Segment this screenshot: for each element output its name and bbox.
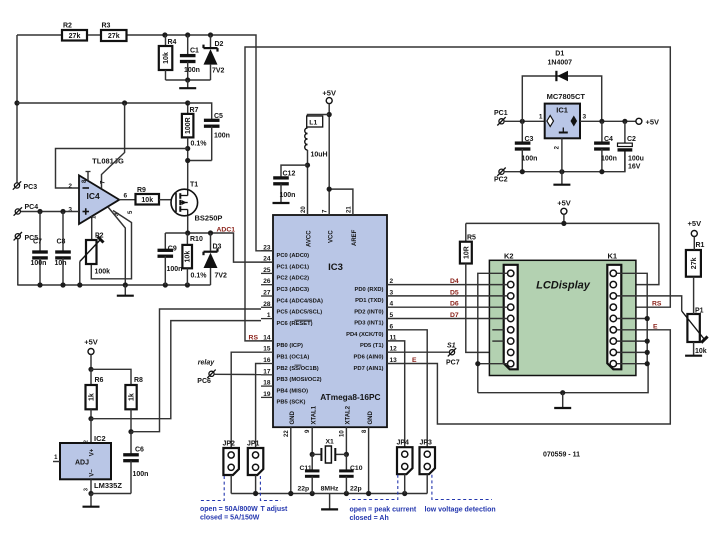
svg-text:C8: C8: [57, 239, 66, 246]
svg-text:AVCC: AVCC: [307, 230, 313, 247]
wire JP1 bottom to gnd rail: [255, 475, 257, 494]
wire D4 pin2 to K2: [387, 284, 508, 286]
wire D5 pin3 to K2: [387, 295, 508, 297]
IC3 pin 1 PC6 (RESET) stub: [261, 318, 273, 320]
junction dot K1 row7: [645, 339, 650, 344]
svg-text:R4: R4: [168, 39, 177, 46]
junction dot JP4 rail: [402, 491, 407, 496]
node PC3: [13, 181, 37, 191]
wire op-amp pin7 supply: [102, 103, 125, 189]
junction dot left rail y103: [14, 100, 19, 105]
svg-text:+5V: +5V: [646, 117, 660, 126]
svg-text:1k: 1k: [129, 393, 136, 401]
capacitor C12: [273, 165, 307, 202]
wire D7 pin5 to K2: [387, 318, 508, 320]
svg-text:JP2: JP2: [223, 441, 236, 448]
wire D6 pin4 to K2: [387, 306, 508, 308]
wire PC6 to IC3 pin17: [214, 373, 261, 375]
IC3 pin 19 PB5 (SCK) stub: [261, 396, 273, 398]
junction dot C3 bottom: [520, 169, 525, 174]
junction dot C1 top: [185, 32, 190, 37]
power +5V node above L1: [322, 89, 336, 115]
wire K1 row3 to P1 wiper: [617, 296, 682, 311]
junction dot L1 bottom AVCC: [305, 163, 310, 168]
svg-text:PB2 (SS/OC1B): PB2 (SS/OC1B): [277, 366, 319, 372]
svg-text:C10: C10: [350, 465, 363, 472]
ground below LCD: [554, 393, 571, 408]
capacitor C11 22p: [298, 454, 320, 493]
svg-text:PC5 (ADC5/SCL): PC5 (ADC5/SCL): [277, 310, 323, 316]
svg-text:100n: 100n: [184, 67, 200, 74]
junction dot op-amp pin4 bottom: [123, 282, 128, 287]
junction dot R8 bottom: [128, 429, 133, 434]
svg-text:GND: GND: [368, 411, 374, 425]
svg-text:22p: 22p: [298, 486, 310, 493]
electrolytic capacitor C2 100u 16V: [618, 121, 644, 171]
svg-text:7V2: 7V2: [215, 273, 228, 280]
svg-text:10uH: 10uH: [311, 152, 328, 159]
junction dot op-amp supply tap: [122, 100, 127, 105]
junction dot C8 top: [60, 209, 65, 214]
node PC6 relay output: [197, 359, 215, 385]
power +5V node above R6: [84, 338, 98, 370]
junction dot R6 bottom: [88, 416, 93, 421]
IC3 pin 8 GND stub: [368, 427, 370, 493]
svg-text:PD1 (TXD): PD1 (TXD): [355, 298, 383, 304]
svg-text:0.1%: 0.1%: [191, 141, 208, 148]
capacitor C7: [31, 212, 48, 286]
microcontroller IC3 ATmega8-16PC body: [273, 215, 387, 427]
svg-text:RS: RS: [652, 301, 662, 308]
wire PC1 to IC1 input: [504, 120, 545, 122]
junction dot C5 join: [185, 158, 190, 163]
connector K1: [607, 265, 621, 370]
junction dot pin22 rail: [288, 491, 293, 496]
wire rail y103 extension to C5: [188, 103, 212, 120]
svg-text:T1: T1: [190, 182, 198, 189]
svg-text:V+: V+: [90, 448, 96, 456]
svg-text:16: 16: [263, 357, 271, 364]
wire K2 row9 to ground link: [478, 363, 508, 365]
node PC4: [14, 204, 39, 216]
svg-text:X1: X1: [326, 439, 335, 446]
svg-text:R5: R5: [467, 235, 476, 242]
wire IC3 pin11 to JP4: [387, 341, 405, 447]
capacitor C1: [180, 35, 200, 80]
junction dot K1 row8: [645, 350, 650, 355]
junction dot C1 bottom: [185, 77, 190, 82]
wire JP2 bottom to gnd rail: [230, 475, 232, 494]
resistor R2: [62, 23, 87, 41]
wire P1 bottom to ground: [693, 342, 695, 355]
svg-text:PD6 (AIN0): PD6 (AIN0): [354, 355, 384, 361]
IC3 pin 7 VCC stub: [328, 115, 330, 216]
wire T1 source to ADC1 rail: [187, 216, 189, 233]
svg-text:100u: 100u: [628, 156, 644, 163]
svg-text:D3: D3: [213, 243, 222, 250]
svg-text:1k: 1k: [89, 393, 96, 401]
svg-text:19: 19: [263, 391, 271, 398]
annotation dashed JP2: [200, 475, 492, 501]
svg-text:+5V: +5V: [557, 199, 571, 208]
svg-text:100n: 100n: [214, 133, 230, 140]
junction dot XTAL2 node: [344, 452, 349, 457]
svg-text:PD5 (T1): PD5 (T1): [360, 343, 384, 349]
svg-text:27k: 27k: [108, 33, 120, 40]
IC3 pin 9 XTAL1 stub: [311, 427, 313, 454]
svg-text:MC7805CT: MC7805CT: [547, 92, 586, 101]
ground below P1: [685, 355, 702, 357]
wire +5V rail to K1 pin2: [617, 223, 659, 284]
power +5V node to LCD rail: [557, 199, 571, 224]
wire between R2 and R3: [87, 34, 101, 36]
svg-text:PC2 (ADC2): PC2 (ADC2): [277, 276, 310, 282]
IC3 pin 22 GND stub: [290, 427, 292, 493]
wire RS net from pin14 up and across: [245, 47, 670, 341]
svg-text:16V: 16V: [628, 164, 641, 171]
capacitor C8: [55, 212, 71, 286]
svg-text:JP1: JP1: [247, 441, 260, 448]
svg-text:27: 27: [263, 290, 271, 297]
jumper JP2: [223, 448, 239, 475]
junction dot C11 rail: [310, 491, 315, 496]
svg-text:10k: 10k: [185, 251, 192, 263]
svg-text:1: 1: [267, 312, 271, 319]
junction dot pin8 rail: [366, 491, 371, 496]
junction dot T1-R10: [185, 230, 190, 235]
resistor R1: [686, 242, 705, 314]
IC3 pin 24 PC1 (ADC1) stub: [261, 261, 273, 263]
IC3 pin 10 XTAL2 stub: [345, 427, 347, 454]
node PC2: [494, 168, 508, 184]
power +5V node above R1: [688, 219, 702, 250]
IC3 pin 26 PC3 (ADC3) stub: [261, 284, 273, 286]
resistor R3: [101, 23, 127, 42]
wire IC2 node to C6 bottom: [91, 493, 131, 495]
inductor L1 10uH: [305, 115, 329, 166]
svg-text:R7: R7: [190, 107, 199, 114]
capacitor C3: [515, 121, 538, 171]
wire IC3 pin16 to JP1: [256, 364, 261, 449]
wire K2 row1 ground link: [478, 273, 508, 392]
potentiometer P1 10k: [682, 308, 708, 356]
IC3 pin 23 PC0 (ADC0) stub: [261, 250, 273, 252]
node PC1: [494, 110, 508, 126]
junction dot XTAL1 node: [310, 452, 315, 457]
svg-text:BS250P: BS250P: [195, 214, 223, 223]
svg-text:100n: 100n: [167, 266, 183, 273]
junction dot R4 top: [162, 32, 167, 37]
svg-text:22p: 22p: [350, 486, 362, 493]
wire K1 row1 to ground vertical: [617, 273, 647, 363]
svg-text:24: 24: [263, 256, 271, 263]
svg-text:7V2: 7V2: [212, 68, 225, 75]
svg-text:P2: P2: [95, 233, 104, 240]
transistor T1 BS250P: [171, 182, 222, 223]
svg-text:PB0 (ICP): PB0 (ICP): [277, 343, 303, 349]
resistor R9: [119, 187, 171, 205]
svg-text:100n: 100n: [280, 192, 296, 199]
zener diode D3 7V2: [204, 233, 228, 285]
svg-text:100n: 100n: [133, 471, 149, 478]
svg-text:10k: 10k: [141, 197, 153, 204]
svg-text:PC3 (ADC3): PC3 (ADC3): [277, 287, 310, 293]
node PC5: [14, 232, 39, 242]
wire pin3 input: [18, 211, 79, 213]
resistor R7 0.1%: [182, 103, 207, 148]
op-amp pin 8 stub: [86, 172, 91, 181]
svg-text:100k: 100k: [95, 269, 111, 276]
svg-text:23: 23: [263, 244, 271, 251]
svg-text:18: 18: [263, 380, 271, 387]
wire K1 row5 stub: [617, 318, 647, 320]
wire K1 row7 stub: [617, 340, 647, 342]
junction dot JP1 rail: [253, 491, 258, 496]
svg-text:8MHz: 8MHz: [321, 486, 339, 493]
svg-text:1N4007: 1N4007: [548, 60, 573, 67]
wire R4-C1-D2 bottom bus: [166, 79, 211, 81]
regulator IC1 MC7805CT: [539, 92, 587, 149]
svg-text:P1: P1: [695, 308, 704, 315]
svg-text:C12: C12: [283, 171, 296, 178]
wire left vertical rail x17: [16, 35, 18, 183]
IC3 pin 21 AREF stub: [329, 189, 353, 215]
svg-text:10: 10: [339, 430, 345, 437]
svg-text:C5: C5: [214, 113, 223, 120]
junction dot VCC feed: [327, 112, 332, 117]
wire R7 bottom to T1 drain: [187, 137, 189, 189]
svg-text:closed = Ah: closed = Ah: [350, 515, 389, 522]
junction dot K1 row9: [645, 361, 650, 366]
svg-text:C6: C6: [135, 447, 144, 454]
IC3 pin 15 PB1 (OC1A) stub: [261, 351, 273, 353]
svg-text:R8: R8: [134, 377, 143, 384]
svg-text:closed = 5A/150W: closed = 5A/150W: [200, 515, 260, 522]
capacitor C4: [594, 121, 617, 171]
junction dot K2 ground link: [475, 361, 480, 366]
svg-text:PC1 (ADC1): PC1 (ADC1): [277, 264, 310, 270]
svg-text:D7: D7: [450, 312, 459, 319]
svg-text:C1: C1: [190, 48, 199, 55]
ground below PSU: [553, 172, 570, 185]
temperature sensor IC2 LM335Z: [53, 419, 122, 494]
wire K1 row8 stub: [617, 351, 647, 353]
junction dot R7 top rail: [185, 100, 190, 105]
svg-text:C3: C3: [525, 136, 534, 143]
IC3 pin 27 PC4 (ADC4/SDA) stub: [261, 295, 273, 297]
svg-text:low voltage detection: low voltage detection: [425, 507, 496, 514]
svg-text:GND: GND: [290, 411, 296, 425]
svg-text:20: 20: [301, 206, 307, 213]
resistor R5: [460, 235, 476, 264]
svg-text:C11: C11: [300, 465, 312, 472]
svg-text:3: 3: [583, 114, 587, 121]
switch S1 node PC7: [446, 342, 460, 366]
svg-text:R1: R1: [696, 242, 705, 249]
svg-text:28: 28: [263, 301, 271, 308]
svg-text:D2: D2: [215, 41, 224, 48]
svg-text:14: 14: [263, 334, 271, 341]
junction dot D3 top: [208, 230, 213, 235]
svg-text:JP4: JP4: [397, 440, 410, 447]
svg-text:PD4 (XCK/T0): PD4 (XCK/T0): [346, 332, 383, 338]
svg-text:D4: D4: [450, 278, 459, 285]
svg-text:22: 22: [284, 430, 290, 437]
svg-text:C7: C7: [33, 239, 42, 246]
svg-text:PD7 (AIN1): PD7 (AIN1): [354, 366, 384, 372]
svg-text:PC1: PC1: [494, 110, 508, 117]
ground below C12: [273, 202, 290, 204]
wire +5V rail above LCD: [466, 222, 659, 224]
svg-text:IC1: IC1: [556, 106, 568, 115]
wire rail y103 to R7: [17, 102, 188, 104]
wire R6 node to IC3 pin1: [91, 321, 261, 419]
svg-text:LM335Z: LM335Z: [94, 481, 122, 490]
svg-text:3: 3: [68, 207, 72, 214]
wire PC5 down to ground rail: [17, 239, 19, 285]
jumper JP4: [397, 447, 413, 474]
IC3 pin 17 PB3 (MOSI/OC2) stub: [261, 374, 273, 376]
svg-text:+5V: +5V: [84, 338, 98, 347]
svg-text:T adjust: T adjust: [261, 506, 289, 513]
svg-text:JP3: JP3: [420, 440, 433, 447]
resistor R6: [86, 369, 104, 418]
wire top rail left from node to R2: [17, 34, 62, 36]
svg-text:1: 1: [539, 114, 543, 121]
svg-text:R3: R3: [102, 23, 111, 30]
svg-text:PC3: PC3: [24, 184, 38, 191]
resistor R4: [159, 35, 177, 80]
svg-text:3: 3: [84, 488, 90, 491]
svg-text:10n: 10n: [55, 260, 67, 267]
svg-text:PD3 (INT1): PD3 (INT1): [354, 321, 383, 327]
wire IC1 pin2 to rail: [561, 138, 563, 171]
junction dot C8 bottom: [60, 282, 65, 287]
IC3 pin 16 PB2 (SS/OC1B) stub: [261, 363, 273, 365]
op-amp pin4 wire to ground rail: [108, 207, 125, 285]
svg-text:ADJ: ADJ: [75, 460, 89, 467]
svg-text:R2: R2: [63, 23, 72, 30]
wire analog ground rail y285: [17, 284, 210, 286]
svg-text:2: 2: [84, 440, 90, 443]
svg-text:ADC1: ADC1: [217, 227, 236, 234]
op-amp pin1 wire to P2: [91, 216, 93, 240]
capacitor C5: [188, 113, 230, 161]
svg-text:D5: D5: [450, 289, 459, 296]
svg-text:IC2: IC2: [94, 434, 106, 443]
svg-text:ATmega8-16PC: ATmega8-16PC: [320, 392, 380, 402]
IC3 pin 18 PB4 (MISO) stub: [261, 385, 273, 387]
svg-text:IC3: IC3: [328, 262, 343, 273]
jumper JP3: [420, 447, 436, 474]
svg-text:XTAL1: XTAL1: [311, 405, 317, 424]
svg-text:27k: 27k: [691, 257, 698, 269]
svg-text:R10: R10: [190, 236, 203, 243]
junction dot C4 bottom: [599, 169, 604, 174]
svg-text:10k: 10k: [695, 348, 707, 355]
wire JP3 bottom to rail: [426, 474, 428, 493]
IC3 pin 20 AVCC stub: [307, 165, 309, 215]
wire to R8 top: [91, 369, 131, 385]
junction dot C7 top: [37, 209, 42, 214]
svg-text:D1: D1: [555, 51, 564, 58]
svg-text:PB1 (OC1A): PB1 (OC1A): [277, 355, 310, 361]
jumper JP1: [248, 448, 263, 475]
ground below IC2: [83, 494, 100, 507]
junction dot feedback tap: [185, 146, 190, 151]
svg-text:K2: K2: [504, 252, 514, 261]
wire LCD bottom ground bus: [478, 364, 648, 393]
junction dot D1/C3 input: [520, 119, 525, 124]
svg-text:open = 50A/800W: open = 50A/800W: [200, 506, 258, 513]
wire IC3 pin12 to S1: [387, 351, 449, 353]
svg-text:100n: 100n: [522, 156, 538, 163]
wire R5 to K2 pin8: [466, 264, 504, 353]
junction dot C9 bottom: [163, 282, 168, 287]
svg-text:AREF: AREF: [352, 229, 358, 246]
capacitor C9: [158, 233, 183, 285]
junction dot C4 top: [599, 119, 604, 124]
svg-text:S1: S1: [447, 342, 456, 349]
svg-text:PC4 (ADC4/SDA): PC4 (ADC4/SDA): [277, 298, 323, 304]
junction dot D2 top: [208, 32, 213, 37]
svg-text:V−: V−: [90, 469, 96, 477]
svg-text:PC4: PC4: [25, 204, 39, 211]
connector K2: [504, 265, 518, 370]
wire PSU ground rail: [504, 152, 625, 172]
svg-text:C2: C2: [627, 136, 636, 143]
svg-text:PB5 (SCK): PB5 (SCK): [277, 400, 306, 406]
junction dot LCD ground stem: [560, 390, 565, 395]
junction dot IC2 ground node: [88, 491, 93, 496]
junction dot C10 rail: [344, 491, 349, 496]
svg-text:R9: R9: [137, 187, 146, 194]
svg-text:PD2 (INT0): PD2 (INT0): [354, 309, 383, 315]
ground on analog rail: [117, 285, 134, 296]
svg-text:PC7: PC7: [446, 359, 460, 366]
wire feedback to inverting input: [56, 149, 188, 189]
wire from R3 to PC0 vertical: [127, 35, 274, 251]
wire P2 wiper to ground rail: [79, 262, 81, 286]
svg-text:2: 2: [68, 183, 72, 190]
svg-text:10R: 10R: [463, 246, 470, 259]
IC3 pin 25 PC2 (ADC2) stub: [261, 272, 273, 274]
wire IC3 pin15 to JP2: [231, 352, 261, 448]
junction dot AREF tap: [327, 187, 332, 192]
svg-text:27k: 27k: [69, 33, 81, 40]
svg-text:6: 6: [124, 193, 128, 200]
junction dot +5V rail: [561, 221, 566, 226]
junction dot R10 bottom: [185, 282, 190, 287]
K2 unconnected stub row7: [492, 340, 503, 342]
svg-text:PB4 (MISO): PB4 (MISO): [277, 388, 309, 394]
wire rail to R5: [465, 223, 467, 241]
wire IC3 pin6 to JP3: [387, 330, 427, 447]
svg-text:E: E: [653, 323, 658, 330]
svg-text:LCDisplay: LCDisplay: [536, 280, 591, 292]
potentiometer P2 100k: [80, 233, 110, 276]
svg-text:relay: relay: [198, 359, 215, 366]
wire E net from pin13 to K1 row6: [387, 330, 670, 424]
svg-text:0.1%: 0.1%: [191, 273, 208, 280]
svg-text:C9: C9: [168, 246, 177, 253]
ground on crystal rail: [321, 494, 338, 510]
svg-text:21: 21: [346, 206, 352, 213]
svg-text:IC4: IC4: [87, 191, 101, 201]
svg-text:open = peak current: open = peak current: [350, 507, 417, 514]
junction dot K1 row5: [645, 316, 650, 321]
zener diode D2 7V2: [204, 35, 225, 80]
